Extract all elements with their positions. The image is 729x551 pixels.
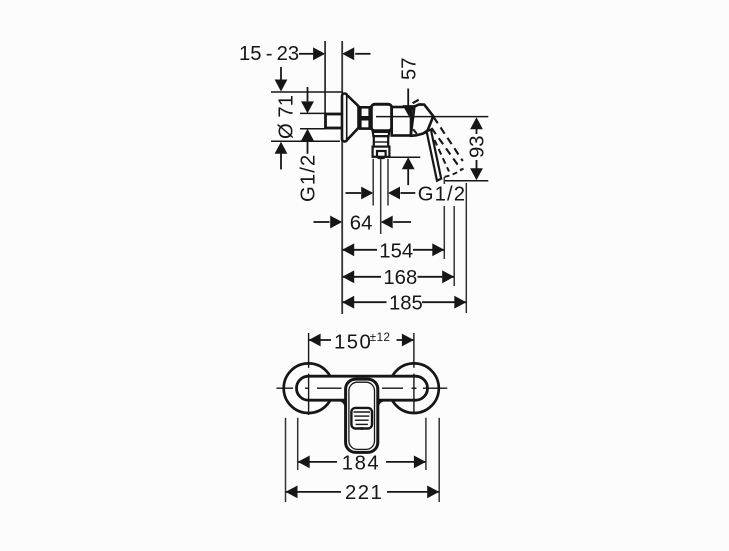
- svg-text:15 - 23: 15 - 23: [239, 43, 299, 65]
- escutcheon flange: [342, 94, 347, 142]
- handle alt position dash outer: [434, 117, 463, 161]
- dim 150 line left: [309, 334, 321, 347]
- dim dia71 bottom arrow: [275, 142, 288, 154]
- wall line left: [324, 41, 326, 113]
- handle front inner outline: [349, 382, 375, 449]
- hex nut lower: [360, 119, 369, 128]
- handle lever: [427, 130, 442, 181]
- right circle horizontal centerline: [382, 387, 447, 389]
- svg-text:221: 221: [345, 482, 383, 504]
- dim G1/2 outlet left arrow: [346, 192, 362, 194]
- right circle vertical centerline: [413, 333, 415, 414]
- dim 168 line: [342, 270, 354, 283]
- dim 57 top arrow: [407, 89, 409, 107]
- left circle horizontal centerline: [277, 387, 342, 389]
- right escutcheon circle: [389, 363, 439, 413]
- dim 93 bottom arrow: [476, 160, 478, 169]
- outlet center extension line: [380, 159, 382, 234]
- dim 168 extension line: [453, 206, 455, 286]
- svg-text:150: 150: [334, 331, 372, 353]
- handle alt position dash tip: [445, 169, 464, 177]
- valve right section: [392, 107, 411, 136]
- dim 154 extension line: [443, 177, 445, 184]
- dim 154 line: [342, 243, 354, 256]
- dim 185 line: [342, 296, 354, 309]
- dim 184 extension line right: [425, 418, 427, 470]
- dim dia71 top arrow: [280, 67, 282, 80]
- dim 221 extension line left: [285, 418, 287, 502]
- bar-handle fillet right: [378, 400, 385, 405]
- outlet collar: [374, 136, 388, 146]
- escutcheon cone: [348, 96, 359, 140]
- bar: [297, 376, 428, 400]
- dim 57 bottom arrow: [402, 157, 415, 169]
- svg-text:G1/2: G1/2: [298, 154, 320, 202]
- svg-text:57: 57: [399, 57, 421, 80]
- handle alt position dash inner: [435, 140, 450, 172]
- wall line right: [341, 41, 343, 314]
- dim 15-23 right arrow: [355, 53, 370, 55]
- svg-text:168: 168: [383, 267, 417, 289]
- handle plate: [351, 408, 372, 429]
- svg-text:Ø 71: Ø 71: [276, 95, 298, 139]
- outlet nut: [373, 147, 390, 157]
- dim 221 extension line right: [438, 418, 440, 502]
- handle alt position dash undercap2: [421, 132, 427, 134]
- svg-text:64: 64: [350, 212, 373, 234]
- dim 15-23 left arrow: [299, 53, 313, 55]
- dim 93 top arrow: [470, 117, 483, 129]
- handle alt position dash undercap: [413, 129, 417, 134]
- handle plate lines: [354, 412, 371, 424]
- dim 150 line right: [397, 339, 414, 341]
- dim G1/2 inlet top ref line: [300, 112, 325, 114]
- outlet extension line left: [372, 159, 374, 206]
- dim G1/2 inlet bottom arrow: [301, 129, 314, 141]
- outlet nut inner: [377, 151, 386, 157]
- handle cap: [411, 104, 434, 135]
- svg-text:185: 185: [389, 292, 423, 314]
- dim G1/2 inlet top arrow: [307, 87, 309, 101]
- svg-text:±12: ±12: [370, 332, 391, 344]
- dim 184 extension line left: [297, 418, 299, 470]
- dim 185 extension line: [465, 183, 467, 313]
- left circle vertical centerline: [308, 333, 310, 415]
- dim G1/2 inlet bottom ref line: [300, 128, 325, 130]
- outlet collar line: [374, 141, 388, 143]
- svg-text:G1/2: G1/2: [418, 183, 466, 205]
- inlet nipple: [326, 114, 343, 128]
- svg-text:93: 93: [467, 135, 489, 158]
- handle alt position dash mid: [432, 128, 462, 170]
- left escutcheon circle: [284, 363, 334, 413]
- handle front: [346, 379, 378, 452]
- dim 184 line: [298, 456, 310, 469]
- handle bottom tick: [361, 427, 364, 430]
- outlet extension line right: [387, 159, 389, 206]
- valve body: [371, 104, 391, 130]
- dim 93 bottom ref line: [445, 180, 488, 182]
- bar-handle fillet left: [339, 400, 346, 405]
- svg-text:184: 184: [342, 452, 380, 474]
- centerline: [376, 116, 488, 118]
- dim dia71 top ref line: [271, 91, 343, 93]
- outlet neck: [373, 132, 389, 136]
- dim 221 line: [286, 486, 298, 499]
- handle alt position dash top: [413, 99, 421, 103]
- hex nut upper: [360, 107, 369, 117]
- outlet tip: [378, 157, 385, 159]
- dim 64 right arrow: [381, 216, 393, 229]
- dim 57 bottom ref line: [389, 156, 421, 158]
- dim dia71 bottom ref line: [271, 140, 340, 142]
- svg-text:154: 154: [379, 240, 413, 262]
- dim 64 left arrow: [314, 221, 330, 223]
- dim G1/2 outlet right arrow: [388, 187, 400, 200]
